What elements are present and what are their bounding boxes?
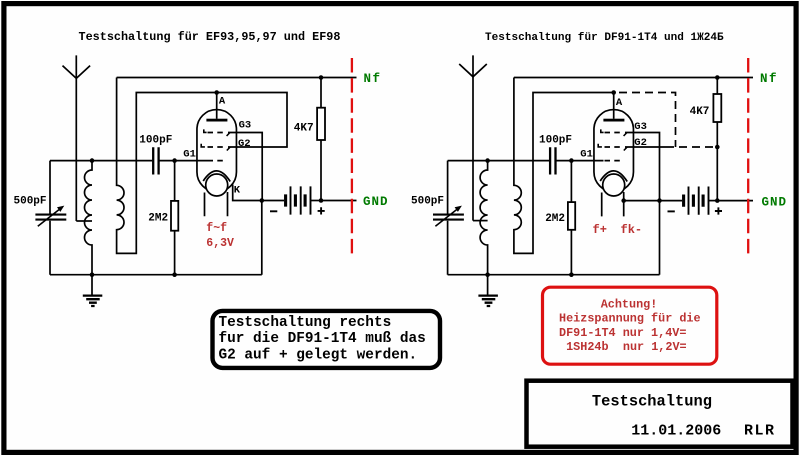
svg-text:G1: G1: [183, 149, 196, 161]
wire cathode K lead: [233, 185, 262, 201]
wire top Nf line: [117, 77, 357, 79]
resistor R2 4K7 body: [317, 108, 325, 140]
tube V1 anode plate bar: [206, 119, 227, 122]
resistor R2 4K7 leads: [320, 78, 322, 201]
battery B2 minus sign: [668, 210, 675, 212]
resistor R3 2M2 leads: [570, 161, 572, 275]
svg-text:RLR: RLR: [744, 423, 776, 440]
capacitor C1 arrow: [38, 209, 60, 226]
wire main grid line right: [448, 160, 604, 162]
wire left branch down right: [447, 161, 449, 275]
svg-text:A: A: [616, 97, 623, 109]
wire main grid line y=160.6: [50, 160, 208, 162]
capacitor C1 500pF plates: [35, 215, 66, 220]
node dashed G2 plus junction: [715, 145, 720, 150]
battery B2 long plates: [689, 187, 709, 215]
capacitor C3 arrow: [435, 209, 457, 226]
coil L1: [85, 161, 92, 275]
tube V2 anode lead: [613, 93, 615, 119]
tube V2 grid G1 dashes: [605, 160, 624, 162]
svg-text:500pF: 500pF: [411, 196, 444, 208]
svg-text:G3: G3: [239, 120, 252, 132]
svg-text:11.01.2006: 11.01.2006: [631, 423, 721, 440]
note box black: [213, 311, 441, 368]
wire bottom rail: [50, 274, 262, 276]
tube V1 grid G3 dashes: [208, 132, 227, 134]
node 4K7 top: [319, 75, 324, 80]
svg-text:GND: GND: [762, 196, 788, 210]
coil L2 and G2 box wire: [117, 78, 287, 254]
capacitor C2 100pF plates: [153, 147, 158, 174]
svg-text:100pF: 100pF: [539, 135, 572, 147]
capacitor C3 500pF plates: [433, 215, 464, 220]
tube V2 base dome arc: [600, 171, 627, 182]
node 2M2 bottom: [172, 272, 177, 277]
tube V2 envelope: [594, 110, 634, 192]
node coil L1 bottom: [90, 272, 95, 277]
tube V2 heater leads: [602, 192, 624, 216]
battery B1 plus sign: [318, 207, 325, 214]
resistor R1 2M2 leads: [174, 161, 176, 275]
tube V1 grid G3 ticks: [204, 129, 230, 136]
title block box: [527, 381, 793, 447]
svg-text:1SH24b: 1SH24b: [566, 340, 608, 354]
battery B1 minus sign: [270, 210, 277, 212]
tube V2 base circle: [603, 174, 625, 196]
wire GND line right: [717, 200, 753, 202]
antenna ANT2: [472, 55, 474, 220]
node anode junction: [214, 90, 219, 95]
node 2M2 bottom right: [569, 272, 574, 277]
svg-text:Testschaltung: Testschaltung: [592, 392, 712, 410]
tube V1 heater leads: [205, 192, 228, 216]
wire top Nf line right: [514, 77, 753, 79]
tube V1 envelope: [197, 110, 237, 192]
battery B1 long plates: [291, 186, 311, 214]
svg-text:DF91-1T4 nur 1,4V=: DF91-1T4 nur 1,4V=: [559, 326, 686, 340]
svg-text:nur 1,2V=: nur 1,2V=: [623, 340, 687, 354]
wire G3 lead to cathode junction: [228, 133, 262, 201]
node battery plus junction right: [715, 198, 720, 203]
wire bottom rail right: [448, 274, 660, 276]
wire antenna tap to coil L1: [76, 220, 92, 222]
node coil L1 top: [90, 158, 95, 163]
wire battery plus lead: [311, 200, 322, 202]
wire battery minus lead: [262, 200, 284, 202]
tube V1 base circle: [206, 174, 228, 196]
svg-text:Nf: Nf: [760, 72, 778, 86]
svg-text:Testschaltung für EF93,95,97 u: Testschaltung für EF93,95,97 und EF98: [79, 30, 341, 44]
coil L3: [480, 161, 487, 275]
svg-text:Testschaltung rechts: Testschaltung rechts: [219, 315, 392, 331]
tube V2 grid G3 dashes: [605, 132, 624, 134]
svg-text:G2: G2: [238, 138, 251, 150]
node cathode junction: [260, 198, 265, 203]
svg-text:4K7: 4K7: [294, 123, 314, 135]
svg-text:500pF: 500pF: [14, 196, 47, 208]
red dashed rail left: [351, 58, 353, 259]
wire left branch down: [49, 161, 51, 275]
svg-text:Testschaltung für DF91-1T4 und: Testschaltung für DF91-1T4 und 1Ж24Б: [485, 32, 724, 44]
wire down to bottom rail right: [659, 201, 661, 275]
tube V1 anode lead: [216, 93, 218, 119]
node heater junction: [621, 198, 626, 203]
tube V1 base dome arc: [203, 171, 230, 182]
warning box red: [543, 287, 717, 364]
node 2M2 top right: [569, 158, 574, 163]
svg-text:G2 auf + gelegt werden.: G2 auf + gelegt werden.: [219, 347, 418, 363]
svg-text:Heizspannung für die: Heizspannung für die: [559, 312, 701, 326]
node coil L3 bottom: [485, 272, 490, 277]
svg-text:K: K: [234, 184, 241, 196]
svg-text:G1: G1: [580, 149, 593, 161]
coil L4 and anode branch wire: [514, 78, 614, 254]
resistor R4 4K7 leads: [716, 78, 718, 201]
svg-text:f+: f+: [593, 223, 607, 237]
svg-text:GND: GND: [363, 195, 389, 209]
wire G3 lead down to minus rail: [625, 133, 660, 201]
svg-text:2M2: 2M2: [148, 213, 168, 225]
tube V1 grid G1 dashes: [208, 160, 227, 162]
battery B2 short plates: [684, 195, 704, 207]
tube V2 grid G2 ticks: [598, 144, 627, 151]
svg-text:G3: G3: [634, 121, 647, 133]
svg-text:4K7: 4K7: [690, 106, 710, 118]
wire down from cathode node to bottom: [261, 201, 263, 275]
capacitor C4 100pF plates: [550, 147, 555, 174]
node anode junction right: [611, 90, 616, 95]
ground symbol right: [487, 275, 489, 296]
svg-text:A: A: [219, 95, 226, 107]
node battery plus junction: [319, 198, 324, 203]
ground symbol: [91, 275, 93, 296]
svg-text:2M2: 2M2: [545, 213, 565, 225]
svg-text:fk-: fk-: [621, 223, 643, 237]
tube V2 grid G2 dashes: [605, 146, 624, 148]
svg-text:f~f: f~f: [206, 222, 227, 235]
node 2M2 top: [172, 158, 177, 163]
tube V1 grid G2 dashes: [208, 146, 227, 148]
tube V2 anode plate bar: [603, 119, 624, 122]
dashed wire anode to G2 alternative: [619, 93, 676, 148]
tube V2 grid G3 ticks: [601, 129, 627, 136]
wire battery plus lead right: [709, 200, 718, 202]
antenna ANT1: [75, 55, 77, 221]
svg-text:6,3V: 6,3V: [206, 237, 234, 250]
wire heater to battery minus: [624, 200, 682, 202]
svg-text:G2: G2: [634, 137, 647, 149]
svg-text:100pF: 100pF: [139, 135, 172, 147]
svg-text:fur die DF91-1T4 muß das: fur die DF91-1T4 muß das: [219, 331, 426, 347]
resistor R1 2M2 body: [171, 201, 178, 231]
node 4K7 top right: [715, 75, 720, 80]
tube V1 grid G2 ticks: [201, 144, 230, 151]
node G3 minus junction: [657, 198, 662, 203]
wire antenna tap to coil L3: [473, 220, 488, 222]
wire G2 lead solid part: [625, 146, 666, 148]
dashed wire G2 to plus: [666, 146, 714, 148]
battery B1 short plates: [286, 194, 306, 206]
node coil L3 top: [485, 158, 490, 163]
svg-text:Achtung!: Achtung!: [601, 297, 658, 311]
battery B2 plus sign: [715, 207, 722, 214]
wire GND line: [321, 200, 357, 202]
svg-text:Nf: Nf: [364, 72, 382, 86]
resistor R3 2M2 body: [568, 202, 575, 230]
red dashed rail right: [747, 58, 749, 259]
resistor R4 4K7 body: [713, 94, 721, 122]
